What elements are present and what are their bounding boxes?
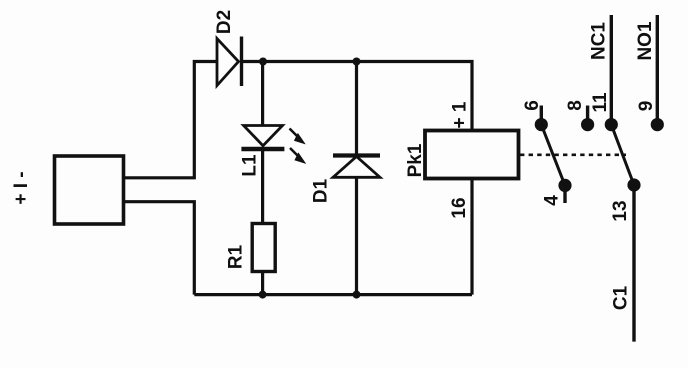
wire: D2 cathode to top-right corner, down to relay coil — [242, 62, 473, 132]
contact node 9 — [651, 118, 664, 131]
junction node R1/bus — [259, 291, 267, 299]
svg-text:C1: C1 — [610, 285, 631, 310]
svg-text:D1: D1 — [311, 178, 332, 203]
wire: D1 anode to bottom bus — [355, 177, 358, 294]
contact pin 4 stub — [563, 191, 566, 203]
wire: LED cathode to resistor R1 — [261, 149, 264, 224]
contact node 13 — [627, 178, 640, 191]
contact node 8 — [581, 118, 594, 131]
svg-text:13: 13 — [610, 200, 631, 221]
contact pin 6 stub — [540, 106, 543, 120]
svg-text:L1: L1 — [240, 154, 261, 177]
contact pin 8 stub — [586, 106, 589, 120]
node: input block (power source) — [55, 156, 124, 224]
svg-text:8: 8 — [565, 100, 586, 111]
junction node at LED branch — [259, 58, 267, 66]
junction node at D1 branch — [353, 58, 361, 66]
svg-text:6: 6 — [522, 100, 543, 111]
svg-text:+ 1: + 1 — [450, 101, 471, 128]
wire NC1 — [610, 15, 613, 125]
svg-text:Pk1: Pk1 — [405, 143, 426, 177]
wire C1 — [632, 185, 635, 342]
contact node 6 — [535, 118, 548, 131]
svg-text:4: 4 — [542, 195, 563, 206]
LED emission arrow 2 — [290, 148, 305, 163]
LED emission arrow 1 — [290, 129, 305, 144]
wire: Pk1 bottom to bus — [470, 179, 473, 295]
svg-text:D2: D2 — [214, 10, 235, 34]
switch arm 6-4 — [541, 125, 565, 186]
resistor R1 — [252, 224, 275, 272]
switch arm 11-13 — [611, 125, 634, 185]
mechanical linkage (dashed) — [520, 154, 626, 157]
diode D2 — [217, 39, 239, 86]
svg-text:11: 11 — [590, 92, 611, 113]
contact node 4 — [558, 179, 571, 192]
wire NO1 — [656, 15, 659, 125]
wire: junction down to LED L1 — [261, 62, 264, 127]
LED L1 — [244, 126, 283, 146]
diode D1 (flyback) — [333, 153, 380, 157]
contact node 11 — [605, 118, 618, 131]
svg-text:NC1: NC1 — [589, 22, 610, 60]
wire: block top output to D2 anode — [123, 62, 217, 178]
junction node D1/bus — [353, 291, 361, 299]
svg-text:16: 16 — [449, 197, 470, 218]
wire: R1 to bottom bus — [261, 272, 264, 295]
svg-text:9: 9 — [636, 101, 657, 112]
wire: block bottom output down to bottom bus — [123, 202, 194, 295]
svg-text:R1: R1 — [225, 244, 246, 269]
svg-text:+ I -: + I - — [11, 171, 32, 204]
wire: bottom bus — [194, 293, 472, 296]
relay coil Pk1 — [425, 131, 519, 179]
wire: top junction down to diode D1 — [355, 62, 358, 157]
svg-text:NO1: NO1 — [635, 21, 656, 61]
